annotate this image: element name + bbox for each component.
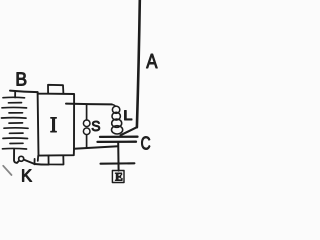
wire: battery top to induction coil box <box>10 91 38 93</box>
svg-text:K: K <box>21 165 32 186</box>
wire: coil secondary bottom to earth lead <box>74 146 118 149</box>
key K knob <box>19 156 24 161</box>
induction coil I bottom terminal <box>49 156 64 165</box>
wire: capacitor to earth E <box>117 143 119 171</box>
svg-text:S: S <box>91 118 100 134</box>
key K lever contact arm <box>24 160 35 164</box>
svg-text:I: I <box>50 112 57 137</box>
svg-text:B: B <box>15 69 27 90</box>
inductor L helix <box>112 104 123 134</box>
earth E box <box>112 171 124 183</box>
wire: battery negative lead down to key <box>14 149 19 163</box>
antenna wire A (vertical lead) <box>137 0 140 127</box>
key K contact post <box>34 159 36 164</box>
wire: key to induction coil bottom terminal <box>35 163 49 166</box>
svg-text:A: A <box>146 50 158 73</box>
capacitor C bottom plate <box>98 141 137 143</box>
wire: induction coil box left-edge stub <box>37 156 39 161</box>
wire: coil secondary top to helix L <box>66 103 112 106</box>
wire: antenna lead-in diagonal to capacitor top <box>121 127 137 135</box>
spark gap S lower ball <box>83 128 90 135</box>
svg-text:C: C <box>141 134 151 154</box>
battery B plates <box>2 97 29 149</box>
spark gap S upper ball <box>83 120 90 127</box>
wire: spark gap branch lower <box>86 135 88 148</box>
induction coil I top terminal <box>48 85 63 94</box>
svg-text:E: E <box>115 171 123 183</box>
wire: battery positive tick <box>14 91 16 97</box>
wire: spark gap branch upper <box>86 104 88 120</box>
earth bar <box>101 162 135 164</box>
key K base stroke <box>3 166 11 175</box>
capacitor C top plate <box>100 136 138 138</box>
induction coil I box <box>38 92 75 155</box>
svg-text:L: L <box>123 108 132 124</box>
